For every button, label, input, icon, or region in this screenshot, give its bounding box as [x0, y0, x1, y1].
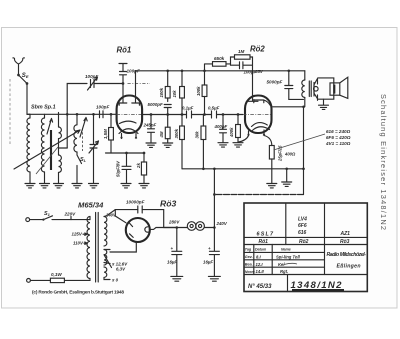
svg-text:SE: SE: [22, 73, 29, 79]
slider arrow L5: [80, 118, 87, 138]
tube Ro3 envelope: [126, 218, 150, 242]
anode feed wire: [115, 210, 126, 223]
speaker frame: [314, 78, 334, 99]
column divider tube2/tube3 name cell: [324, 203, 326, 275]
svg-text:0,1W: 0,1W: [51, 272, 62, 277]
Ro2 anode bar: [254, 100, 272, 107]
transformer heater winding 2: [104, 267, 107, 277]
transformer HV secondary: [104, 210, 115, 217]
svg-text:400pF: 400pF: [214, 124, 228, 129]
ghost dash line: [128, 83, 151, 85]
svg-text:Rö2: Rö2: [299, 239, 309, 245]
output transformer primary: [304, 71, 306, 80]
node bus x214: [213, 167, 216, 170]
wire L3 tap: [59, 147, 68, 149]
choke to bus vertical: [213, 195, 215, 228]
capacitor 400pF: [220, 115, 227, 143]
row line under tube names: [244, 236, 367, 238]
svg-text:50µF/8V: 50µF/8V: [116, 160, 121, 177]
svg-text:16µF: 16µF: [203, 259, 213, 264]
small diagonal stroke through L1/L2: [36, 147, 58, 174]
svg-text:5000pF: 5000pF: [148, 102, 163, 107]
antenna: [13, 58, 25, 75]
ground L5: [72, 184, 82, 188]
svg-text:10k: 10k: [172, 90, 177, 98]
svg-text:10000pF: 10000pF: [126, 199, 145, 204]
svg-text:6,3V: 6,3V: [116, 267, 126, 272]
trimmer capacitor 100pF feedback: [91, 80, 124, 88]
node rail x204: [203, 69, 206, 72]
svg-text:6F6: 6F6: [298, 223, 307, 229]
transformer heater winding 1: [104, 250, 107, 266]
svg-text:240V: 240V: [216, 221, 228, 226]
title block outer box: [244, 203, 367, 292]
svg-text:100pF: 100pF: [96, 105, 109, 110]
Ro1 grid dash: [117, 114, 142, 116]
resistor 10k: [180, 87, 185, 99]
column divider tube1/tube2: [285, 203, 287, 245]
svg-text:100k: 100k: [159, 87, 164, 97]
coil L3b lower winding: [59, 155, 62, 172]
svg-text:220V: 220V: [64, 212, 77, 217]
resistor 100k screen: [202, 85, 207, 97]
svg-text:65V: 65V: [255, 69, 264, 74]
speaker magnet: [330, 83, 340, 95]
speaker cone: [340, 77, 348, 98]
mains terminal top: [26, 218, 30, 222]
ground bus: [182, 168, 304, 170]
svg-text:616: 616: [298, 230, 307, 236]
resistor 650k: [213, 62, 227, 67]
svg-text:LV4: LV4: [298, 217, 307, 223]
resistor R 1,5M grid leak: [109, 128, 114, 141]
svg-text:110V: 110V: [73, 241, 84, 246]
row line under Ro row: [244, 244, 367, 246]
svg-text:Name: Name: [281, 248, 291, 252]
grid top terminal T: [119, 64, 127, 72]
ground cathode cap: [121, 184, 131, 188]
schematic groups inserted below: [10, 45, 388, 296]
mains terminal bottom: [27, 279, 31, 283]
resistor 0,1M mains: [30, 279, 88, 281]
B+ link horizontal y193: [213, 169, 215, 195]
core bar L2: [50, 130, 52, 170]
svg-text:x 0: x 0: [111, 277, 119, 282]
row line above bottom row: [244, 274, 367, 276]
B+ feed vertical x303: [303, 107, 305, 195]
ground pot: [267, 184, 277, 188]
core dash L5: [82, 128, 84, 151]
capacitor 100pF series input: [100, 111, 117, 118]
resistor 4M: [165, 127, 170, 139]
svg-text:6F6 = 420Ω: 6F6 = 420Ω: [326, 135, 351, 140]
svg-text:SL: SL: [80, 157, 87, 163]
output transformer core: [309, 81, 311, 97]
svg-text:12.I: 12.I: [256, 262, 264, 267]
resistor 30k: [201, 126, 206, 140]
pointer line to cathode pot: [274, 134, 326, 150]
node rail x183: [181, 69, 184, 72]
capacitor 245pF: [148, 115, 155, 143]
svg-text:400k: 400k: [229, 127, 234, 138]
coil L3 tapped winding: [58, 113, 60, 128]
svg-text:Datum: Datum: [255, 248, 267, 252]
cathode wire: [106, 152, 145, 154]
Ro1 cathode curve: [119, 121, 138, 133]
svg-text:Rö2: Rö2: [250, 45, 265, 54]
tuning cap arrow: [89, 141, 99, 153]
svg-text:100pF: 100pF: [85, 74, 98, 79]
node rail-x67: [66, 113, 69, 116]
svg-text:Radio Mildschözel-: Radio Mildschözel-: [327, 252, 367, 258]
Ro1 anode bar and stem: [132, 71, 140, 106]
svg-text:650k: 650k: [214, 56, 225, 61]
svg-text:125V: 125V: [72, 232, 83, 237]
transformer core: [96, 213, 99, 283]
resistor 300k: [180, 126, 185, 140]
switch Se: [19, 75, 28, 84]
capacitor 100pF parallel: [231, 62, 253, 96]
svg-text:280V: 280V: [168, 219, 180, 224]
ground L1: [25, 184, 35, 188]
Ro3 heater wire: [110, 242, 136, 252]
svg-text:6SL7: 6SL7: [257, 232, 275, 238]
potentiometer 400 ohm cathode: [269, 146, 274, 160]
svg-text:+: +: [171, 246, 174, 251]
node rail-x93: [92, 113, 95, 116]
ground 400k: [233, 143, 243, 147]
node rail x167: [166, 69, 169, 72]
Ro3 anode strokes: [130, 223, 134, 237]
wire antenna to coil rail: [27, 84, 30, 115]
resistor 100k decoupling: [165, 87, 170, 99]
wire cathode left leg to ground: [238, 136, 249, 143]
ground 2k: [139, 184, 149, 188]
ground 16uF second: [208, 276, 220, 281]
Ro1 cathode legs: [122, 134, 137, 139]
svg-text:0,1µF: 0,1µF: [182, 106, 194, 111]
Ro2 grid stem and bar: [247, 96, 258, 102]
svg-text:4V1 = 110Ω: 4V1 = 110Ω: [325, 141, 351, 146]
svg-text:Tag: Tag: [245, 248, 252, 252]
svg-text:2k: 2k: [136, 163, 141, 169]
svg-text:(c) Rondo GmbH, Esslingen b.St: (c) Rondo GmbH, Esslingen b.Stuttgart 19…: [32, 290, 124, 296]
svg-text:Rö1: Rö1: [259, 239, 269, 245]
svg-text:Rö3: Rö3: [160, 198, 176, 208]
svg-text:Rö3: Rö3: [340, 239, 350, 245]
svg-text:+: +: [208, 246, 211, 251]
svg-text:Eßlingen: Eßlingen: [337, 264, 361, 270]
svg-text:100k: 100k: [196, 86, 201, 96]
svg-text:14.II: 14.II: [256, 269, 265, 274]
mini table row lines: [244, 252, 325, 267]
node bus x203: [202, 167, 205, 170]
svg-text:S1: S1: [44, 211, 51, 217]
capacitor 0,1uF: [187, 111, 192, 118]
resistor 400k grid Ro2: [236, 125, 241, 138]
resistor 2k cathode: [141, 162, 146, 175]
switch Sa: [30, 216, 89, 220]
svg-text:Norm: Norm: [245, 270, 256, 274]
ground 400pF: [218, 143, 228, 147]
svg-text:5000pF: 5000pF: [267, 80, 283, 85]
Ro2 cathode legs: [249, 130, 265, 136]
coil L1 antenna winding: [27, 114, 30, 118]
Ro2 grid dash: [243, 114, 272, 116]
tuning capacitor C-var: [90, 114, 97, 183]
drawing number underline: [292, 289, 344, 291]
top rail of tuned circuit: [29, 113, 103, 115]
output transformer secondary: [314, 79, 318, 100]
svg-text:Spi-ling Toll: Spi-ling Toll: [276, 254, 301, 259]
svg-text:N° 45/33: N° 45/33: [248, 284, 272, 290]
svg-text:16µF: 16µF: [167, 259, 177, 264]
speaker ground: [319, 99, 329, 109]
coupling wire AF: [142, 114, 243, 116]
trimmer arrow: [88, 77, 98, 90]
node anode x303: [302, 106, 305, 109]
svg-text:400Ω: 400Ω: [284, 152, 296, 157]
cathode to pot wire: [264, 136, 272, 146]
capacitor 16uF second: [209, 228, 219, 277]
svg-text:30k: 30k: [194, 131, 199, 139]
HV wire to rectifier: [115, 210, 163, 228]
ground bus stub: [282, 182, 292, 186]
ground L3: [54, 184, 64, 188]
bottom row divider: [287, 275, 289, 292]
tube Ro2 envelope: [245, 96, 272, 134]
capacitor 100pF grid: [120, 72, 127, 97]
ground L2: [40, 184, 50, 188]
svg-text:Rgt.: Rgt.: [280, 269, 288, 274]
ground 4M: [163, 143, 173, 147]
node bus x303: [302, 167, 305, 170]
svg-text:Bea.: Bea.: [245, 263, 253, 267]
capacitor 5000pF across primary: [285, 71, 304, 100]
svg-text:300k: 300k: [174, 128, 179, 138]
node grid line x123: [122, 82, 125, 85]
svg-text:1M: 1M: [238, 49, 245, 54]
shield dash line: [9, 79, 11, 146]
slider arrow L2: [47, 119, 53, 135]
svg-text:1,5M: 1,5M: [103, 129, 108, 139]
capacitor 10000pF: [138, 206, 142, 213]
capacitor 0,5uF: [212, 111, 217, 118]
capacitor 16uF first: [172, 228, 182, 277]
resistor 1M: [235, 55, 251, 59]
svg-text:616 = 240Ω: 616 = 240Ω: [326, 129, 351, 134]
Ro1 grid cap stem: [119, 97, 127, 106]
svg-text:245pF: 245pF: [143, 122, 157, 127]
capacitor 50uF cathode bypass: [122, 153, 131, 183]
svg-text:M65/34: M65/34: [78, 201, 104, 210]
svg-text:Gez.: Gez.: [245, 255, 253, 259]
svg-text:0,5µF: 0,5µF: [208, 106, 220, 111]
filter choke: [164, 227, 215, 229]
svg-text:Sbm Sp.1: Sbm Sp.1: [31, 105, 56, 111]
Ro3 cathode circle: [145, 227, 148, 232]
svg-text:4M: 4M: [159, 131, 164, 138]
transformer M65/34 primary: [89, 217, 91, 220]
tube Ro1 envelope: [117, 96, 143, 134]
rectifier output wire: [149, 228, 177, 230]
ground 245pF: [146, 143, 156, 147]
heater tap wires: [104, 250, 112, 268]
mini table column lines: [254, 245, 272, 275]
coil L2 tuning winding: [44, 114, 46, 118]
svg-text:AZ1: AZ1: [340, 231, 351, 237]
bus ground stub: [286, 169, 288, 182]
wire x67 stub up: [67, 84, 87, 149]
reaction coil L5: [76, 114, 78, 125]
anode wire to transformer: [273, 106, 304, 108]
capacitor 5000pF: [164, 105, 171, 115]
switch SL: [77, 152, 82, 183]
B+ rail: [136, 70, 305, 72]
Ro2 cathode curve: [252, 123, 270, 131]
ganged tuning arrow: [14, 130, 80, 169]
ground 16uF first: [171, 276, 183, 281]
svg-text:Rö1: Rö1: [117, 45, 132, 54]
ground C-var: [89, 184, 99, 188]
